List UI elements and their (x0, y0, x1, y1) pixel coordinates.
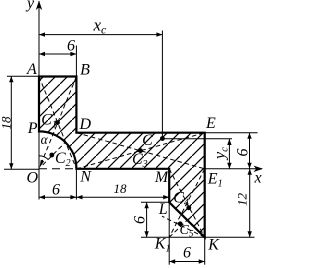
svg-text:M: M (154, 169, 170, 186)
svg-text:A: A (26, 61, 37, 78)
svg-text:18: 18 (0, 116, 13, 130)
svg-text:P: P (27, 120, 38, 137)
svg-text:6: 6 (67, 37, 75, 54)
svg-text:E: E (205, 115, 216, 132)
svg-text:18: 18 (114, 181, 128, 196)
svg-text:6: 6 (52, 181, 60, 198)
svg-text:C: C (142, 132, 153, 149)
svg-text:6: 6 (235, 149, 252, 157)
svg-text:K: K (207, 236, 220, 253)
svg-text:D: D (79, 116, 92, 133)
svg-text:L: L (158, 201, 168, 218)
svg-text:x: x (253, 170, 261, 187)
svg-text:B: B (80, 61, 90, 78)
svg-text:y: y (25, 0, 35, 12)
svg-text:6: 6 (183, 245, 191, 262)
svg-text:α: α (41, 132, 49, 147)
svg-text:12: 12 (235, 193, 250, 207)
svg-text:N: N (79, 168, 92, 185)
svg-text:6: 6 (132, 216, 149, 224)
svg-text:O: O (27, 169, 39, 186)
